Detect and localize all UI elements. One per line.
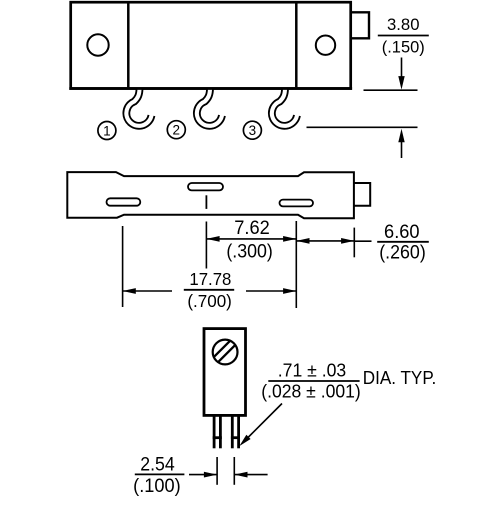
svg-text:3.80: 3.80	[387, 15, 420, 34]
svg-text:3: 3	[249, 123, 257, 138]
svg-text:DIA. TYP.: DIA. TYP.	[363, 367, 437, 388]
svg-text:(.300): (.300)	[226, 242, 273, 263]
svg-text:.71 ± .03: .71 ± .03	[278, 361, 347, 381]
svg-text:1: 1	[103, 123, 111, 138]
svg-text:17.78: 17.78	[189, 269, 231, 289]
svg-text:(.100): (.100)	[133, 476, 181, 497]
svg-text:2.54: 2.54	[140, 455, 175, 476]
svg-text:6.60: 6.60	[384, 222, 420, 243]
svg-text:(.260): (.260)	[379, 243, 426, 264]
svg-text:(.700): (.700)	[187, 291, 232, 311]
svg-text:(.150): (.150)	[382, 37, 425, 56]
svg-text:2: 2	[173, 123, 181, 138]
svg-text:(.028 ± .001): (.028 ± .001)	[261, 381, 361, 401]
svg-text:7.62: 7.62	[234, 218, 270, 239]
